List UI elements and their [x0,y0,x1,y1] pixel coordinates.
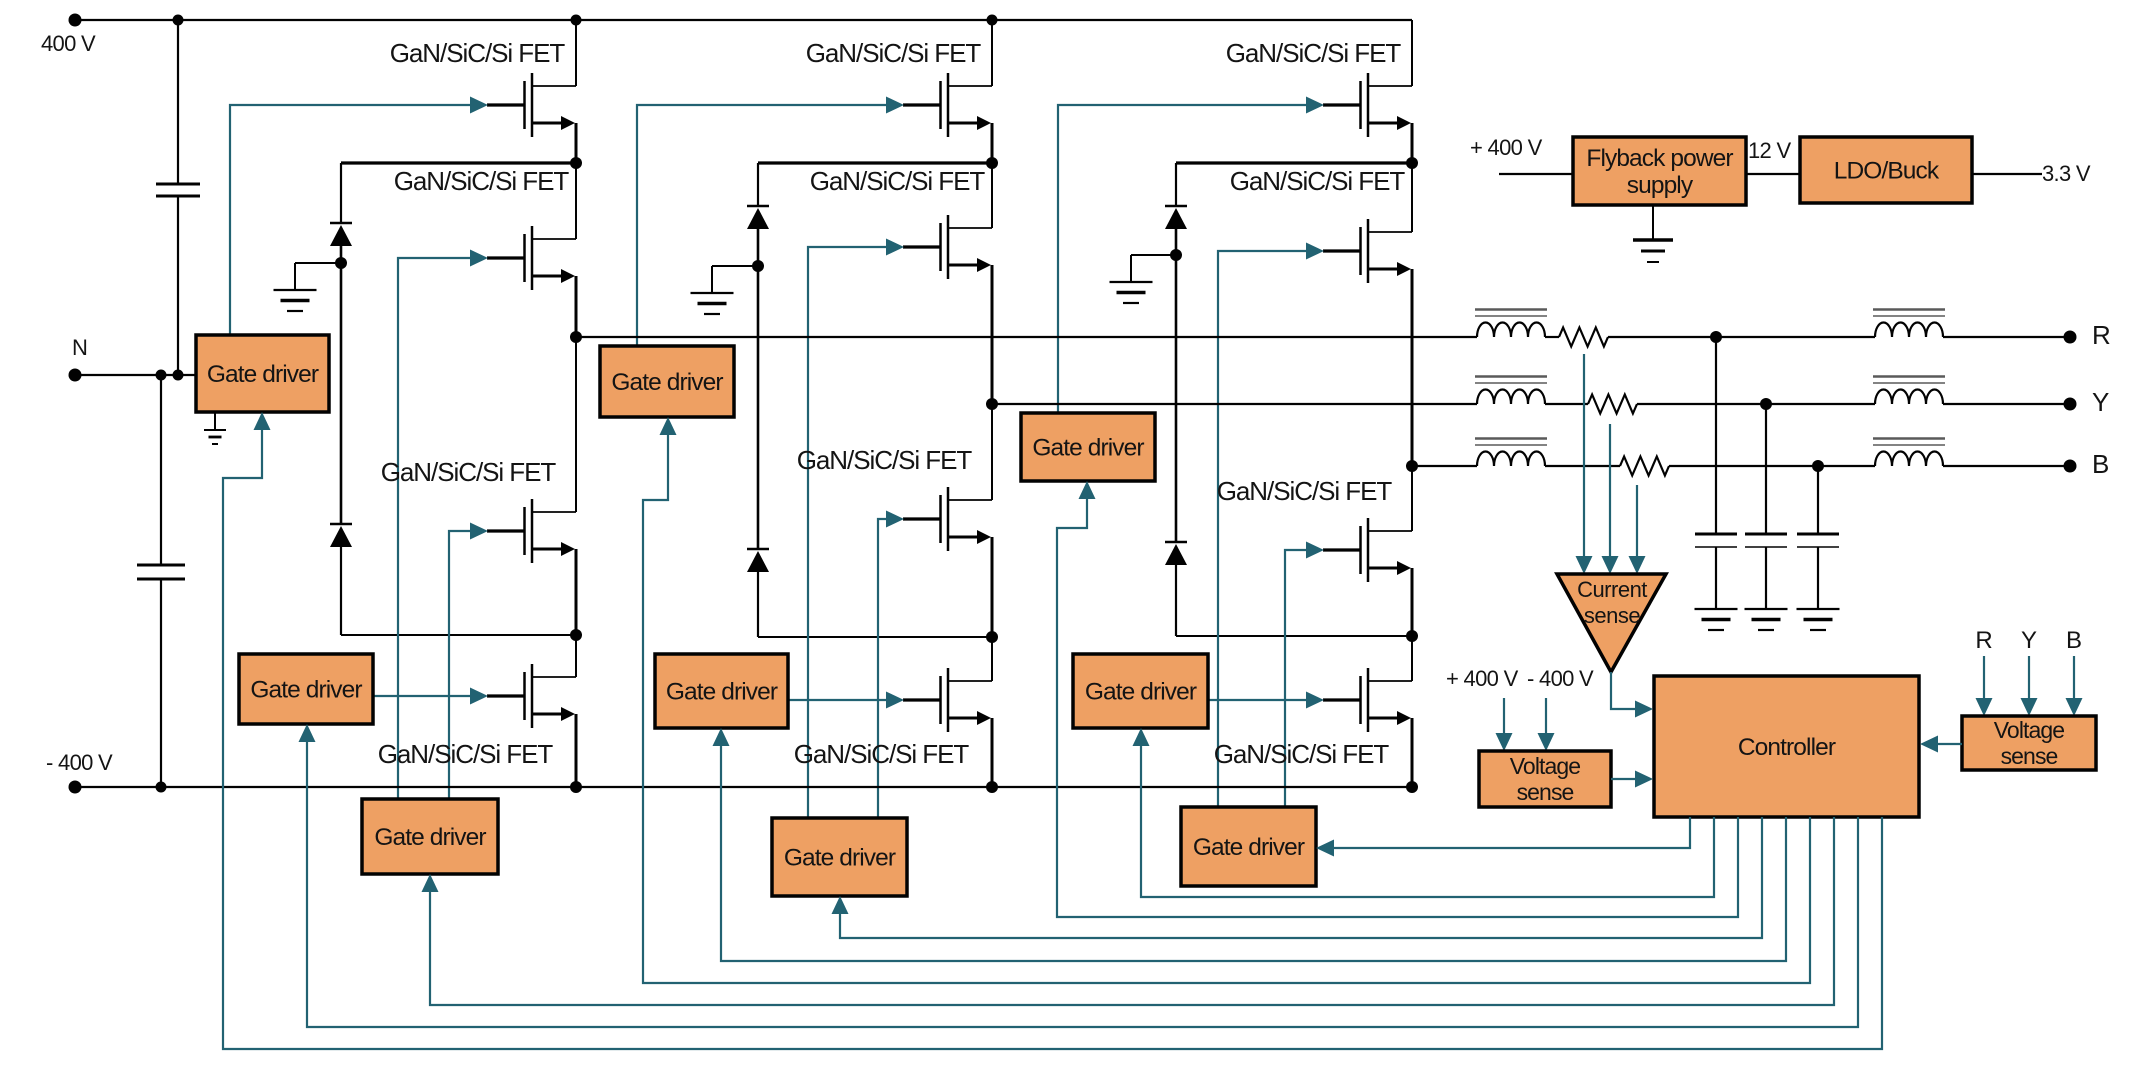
svg-text:Gate driver: Gate driver [784,845,896,872]
svg-text:- 400 V: - 400 V [1527,666,1594,691]
svg-text:Gate driver: Gate driver [374,824,486,851]
svg-text:supply: supply [1627,172,1694,199]
svg-text:Flyback power: Flyback power [1586,145,1733,172]
svg-text:Y: Y [2021,627,2037,654]
svg-text:GaN/SiC/Si FET: GaN/SiC/Si FET [806,38,982,68]
svg-text:Gate driver: Gate driver [1085,679,1197,706]
svg-text:GaN/SiC/Si FET: GaN/SiC/Si FET [1226,38,1402,68]
svg-text:GaN/SiC/Si FET: GaN/SiC/Si FET [794,739,970,769]
svg-text:N: N [72,335,87,360]
svg-text:+ 400 V: + 400 V [1470,135,1543,160]
svg-text:Gate driver: Gate driver [611,369,723,396]
svg-text:GaN/SiC/Si FET: GaN/SiC/Si FET [394,166,570,196]
svg-text:B: B [2066,627,2082,654]
svg-text:GaN/SiC/Si FET: GaN/SiC/Si FET [1230,166,1406,196]
svg-text:GaN/SiC/Si FET: GaN/SiC/Si FET [378,739,554,769]
svg-text:R: R [2092,320,2111,350]
svg-text:+ 400 V: + 400 V [1446,666,1519,691]
svg-text:GaN/SiC/Si FET: GaN/SiC/Si FET [797,445,973,475]
svg-text:GaN/SiC/Si FET: GaN/SiC/Si FET [390,38,566,68]
svg-text:sense: sense [1517,779,1574,805]
svg-text:Voltage: Voltage [1994,717,2065,743]
svg-text:Voltage: Voltage [1510,753,1581,779]
svg-text:Controller: Controller [1738,734,1836,761]
svg-text:GaN/SiC/Si FET: GaN/SiC/Si FET [381,457,557,487]
svg-text:GaN/SiC/Si FET: GaN/SiC/Si FET [810,166,986,196]
svg-text:B: B [2092,449,2109,479]
svg-text:3.3 V: 3.3 V [2042,161,2091,186]
svg-text:Gate driver: Gate driver [1032,435,1144,462]
svg-text:Gate driver: Gate driver [207,361,319,388]
svg-text:12 V: 12 V [1748,138,1791,163]
svg-text:Gate driver: Gate driver [1193,834,1305,861]
svg-text:sense: sense [1584,603,1640,628]
svg-text:GaN/SiC/Si FET: GaN/SiC/Si FET [1214,739,1390,769]
svg-text:sense: sense [2001,743,2058,769]
svg-text:LDO/Buck: LDO/Buck [1834,158,1940,185]
svg-text:R: R [1975,627,1992,654]
svg-text:Gate driver: Gate driver [250,677,362,704]
svg-text:Y: Y [2092,387,2109,417]
svg-text:400 V: 400 V [41,31,96,56]
svg-text:GaN/SiC/Si FET: GaN/SiC/Si FET [1217,476,1393,506]
svg-text:Gate driver: Gate driver [666,679,778,706]
svg-text:- 400 V: - 400 V [46,750,113,775]
svg-text:Current: Current [1577,577,1647,602]
